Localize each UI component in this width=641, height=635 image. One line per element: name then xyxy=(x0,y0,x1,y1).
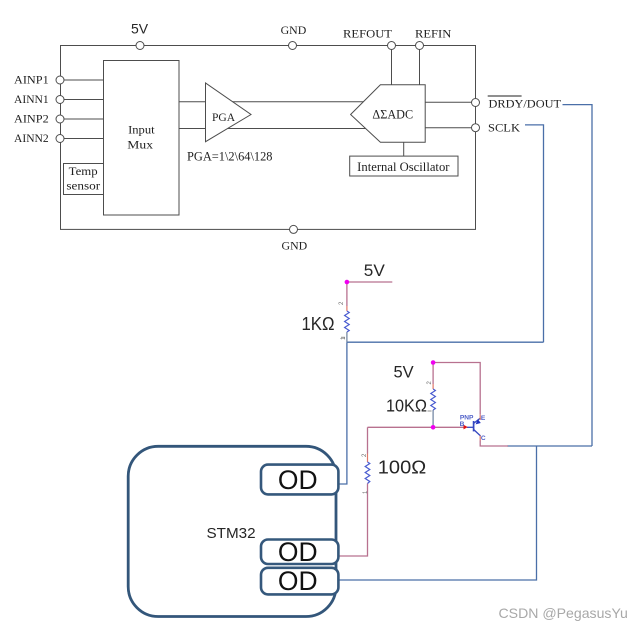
svg-text:5V: 5V xyxy=(394,364,414,382)
svg-text:Input: Input xyxy=(128,123,155,137)
svg-text:REFIN: REFIN xyxy=(415,27,452,41)
svg-text:10KΩ: 10KΩ xyxy=(386,396,427,416)
svg-text:AINN1: AINN1 xyxy=(14,92,49,106)
svg-text:ΔΣADC: ΔΣADC xyxy=(372,108,413,122)
svg-text:OD: OD xyxy=(278,566,318,596)
svg-text:B: B xyxy=(460,421,465,428)
svg-text:100Ω: 100Ω xyxy=(378,458,426,478)
svg-text:OD: OD xyxy=(278,465,318,495)
svg-text:5V: 5V xyxy=(131,21,149,37)
svg-text:CSDN @PegasusYu: CSDN @PegasusYu xyxy=(499,605,628,621)
svg-text:DRDY/DOUT: DRDY/DOUT xyxy=(489,97,562,111)
svg-text:1KΩ: 1KΩ xyxy=(302,314,335,334)
svg-text:Mux: Mux xyxy=(127,138,153,152)
svg-text:STM32: STM32 xyxy=(207,526,256,542)
svg-text:AINN2: AINN2 xyxy=(14,131,49,145)
svg-text:5V: 5V xyxy=(364,262,385,280)
svg-text:GND: GND xyxy=(282,239,308,253)
svg-text:C: C xyxy=(481,435,486,442)
svg-text:SCLK: SCLK xyxy=(488,121,520,135)
svg-text:E: E xyxy=(481,415,486,422)
svg-text:sensor: sensor xyxy=(66,179,100,193)
svg-text:AINP1: AINP1 xyxy=(14,72,49,86)
svg-text:PGA=1\2\64\128: PGA=1\2\64\128 xyxy=(187,150,273,164)
svg-text:PGA: PGA xyxy=(212,110,235,124)
svg-text:Temp: Temp xyxy=(69,164,98,178)
svg-text:GND: GND xyxy=(281,23,307,37)
svg-text:OD: OD xyxy=(278,537,318,567)
svg-text:REFOUT: REFOUT xyxy=(343,27,393,41)
svg-text:AINP2: AINP2 xyxy=(14,111,49,125)
svg-text:Internal Oscillator: Internal Oscillator xyxy=(357,160,450,174)
